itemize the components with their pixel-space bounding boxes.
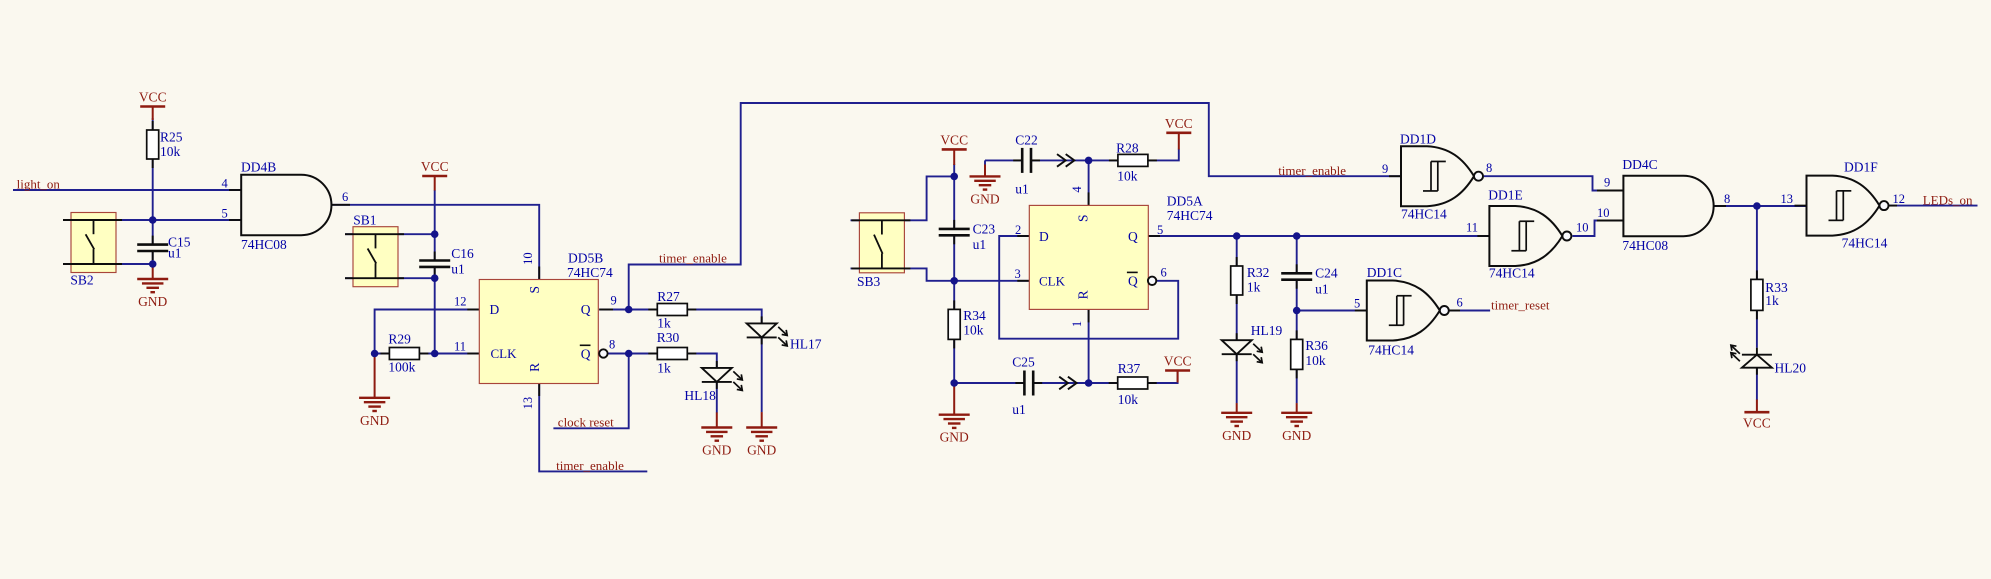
svg-text:C25: C25 xyxy=(1012,355,1035,370)
svg-text:1k: 1k xyxy=(1247,280,1261,295)
svg-text:timer_enable: timer_enable xyxy=(556,458,624,473)
svg-text:SB2: SB2 xyxy=(70,273,93,288)
svg-text:GND: GND xyxy=(940,430,969,445)
svg-text:74HC14: 74HC14 xyxy=(1842,236,1888,251)
svg-text:VCC: VCC xyxy=(940,132,968,147)
svg-text:D: D xyxy=(1039,229,1049,244)
svg-text:9: 9 xyxy=(1382,162,1388,176)
svg-text:DD4B: DD4B xyxy=(241,160,276,175)
svg-text:HL19: HL19 xyxy=(1251,323,1283,338)
svg-text:DD5B: DD5B xyxy=(568,251,603,266)
svg-text:DD4C: DD4C xyxy=(1622,157,1657,172)
svg-text:D: D xyxy=(490,302,500,317)
svg-text:Q: Q xyxy=(1128,274,1138,289)
svg-text:12: 12 xyxy=(454,295,467,309)
svg-text:S: S xyxy=(1076,214,1091,222)
svg-text:u1: u1 xyxy=(168,246,182,261)
svg-text:R37: R37 xyxy=(1118,361,1141,376)
svg-text:timer_enable: timer_enable xyxy=(1278,163,1346,178)
svg-text:DD1D: DD1D xyxy=(1400,132,1436,147)
svg-text:10k: 10k xyxy=(1305,353,1326,368)
svg-text:R: R xyxy=(1076,290,1091,299)
svg-text:GND: GND xyxy=(1282,428,1311,443)
svg-text:GND: GND xyxy=(970,191,999,206)
svg-text:Q: Q xyxy=(581,302,591,317)
svg-text:R30: R30 xyxy=(657,330,680,345)
svg-text:5: 5 xyxy=(222,207,228,221)
svg-text:u1: u1 xyxy=(973,237,987,252)
svg-text:HL20: HL20 xyxy=(1775,361,1807,376)
svg-text:4: 4 xyxy=(222,177,229,191)
svg-text:9: 9 xyxy=(611,294,617,308)
svg-text:1k: 1k xyxy=(1765,293,1779,308)
svg-text:9: 9 xyxy=(1604,176,1610,190)
svg-text:VCC: VCC xyxy=(139,90,167,105)
svg-text:HL17: HL17 xyxy=(790,337,822,352)
svg-text:100k: 100k xyxy=(388,360,415,375)
svg-text:SB1: SB1 xyxy=(353,213,376,228)
svg-text:10k: 10k xyxy=(160,144,181,159)
svg-text:clock reset: clock reset xyxy=(558,415,614,430)
svg-text:74HC08: 74HC08 xyxy=(1622,238,1668,253)
svg-text:R36: R36 xyxy=(1305,338,1328,353)
svg-text:C24: C24 xyxy=(1315,266,1338,281)
svg-text:10k: 10k xyxy=(1118,392,1139,407)
svg-text:u1: u1 xyxy=(451,262,465,277)
svg-text:GND: GND xyxy=(702,443,731,458)
svg-text:R27: R27 xyxy=(657,289,680,304)
svg-text:6: 6 xyxy=(1457,296,1463,310)
svg-text:DD1C: DD1C xyxy=(1367,265,1402,280)
svg-text:74HC74: 74HC74 xyxy=(567,265,613,280)
svg-text:10: 10 xyxy=(1576,221,1589,235)
svg-text:Q: Q xyxy=(1128,229,1138,244)
svg-text:10k: 10k xyxy=(1117,169,1138,184)
svg-text:8: 8 xyxy=(1724,192,1730,206)
svg-text:74HC08: 74HC08 xyxy=(241,237,287,252)
svg-text:Q: Q xyxy=(581,347,591,362)
svg-text:1k: 1k xyxy=(657,316,671,331)
svg-text:6: 6 xyxy=(1161,265,1167,279)
svg-text:GND: GND xyxy=(360,413,389,428)
svg-text:timer_reset: timer_reset xyxy=(1491,298,1550,313)
svg-text:R29: R29 xyxy=(388,332,411,347)
svg-text:5: 5 xyxy=(1157,223,1163,237)
svg-text:11: 11 xyxy=(454,340,466,354)
svg-text:R25: R25 xyxy=(160,130,183,145)
svg-text:S: S xyxy=(527,286,542,294)
svg-text:5: 5 xyxy=(1354,297,1360,311)
svg-text:R32: R32 xyxy=(1247,265,1270,280)
svg-text:10: 10 xyxy=(1597,206,1610,220)
svg-text:1k: 1k xyxy=(657,361,671,376)
svg-text:C16: C16 xyxy=(451,246,474,261)
svg-text:C23: C23 xyxy=(973,222,996,237)
svg-text:11: 11 xyxy=(1466,221,1478,235)
svg-text:CLK: CLK xyxy=(491,346,518,361)
svg-text:SB3: SB3 xyxy=(857,274,881,289)
svg-text:R28: R28 xyxy=(1116,141,1139,156)
svg-text:DD1E: DD1E xyxy=(1488,188,1523,203)
svg-text:VCC: VCC xyxy=(1164,354,1192,369)
svg-text:VCC: VCC xyxy=(1165,116,1193,131)
svg-text:74HC14: 74HC14 xyxy=(1401,207,1447,222)
svg-text:CLK: CLK xyxy=(1039,274,1066,289)
svg-text:10: 10 xyxy=(521,252,535,265)
svg-text:DD5A: DD5A xyxy=(1167,194,1203,209)
svg-text:4: 4 xyxy=(1070,186,1084,193)
svg-text:R: R xyxy=(527,363,542,372)
svg-text:u1: u1 xyxy=(1012,402,1026,417)
svg-text:VCC: VCC xyxy=(421,159,449,174)
svg-text:LEDs_on: LEDs_on xyxy=(1923,193,1973,208)
svg-text:3: 3 xyxy=(1015,267,1021,281)
svg-text:R34: R34 xyxy=(963,308,986,323)
svg-text:74HC14: 74HC14 xyxy=(1368,343,1414,358)
svg-text:10k: 10k xyxy=(963,323,984,338)
svg-text:6: 6 xyxy=(342,190,348,204)
svg-text:DD1F: DD1F xyxy=(1844,160,1878,175)
svg-text:8: 8 xyxy=(1486,161,1492,175)
svg-text:u1: u1 xyxy=(1315,282,1329,297)
svg-text:13: 13 xyxy=(521,397,535,410)
svg-text:GND: GND xyxy=(138,294,167,309)
svg-text:VCC: VCC xyxy=(1743,416,1771,431)
svg-text:C22: C22 xyxy=(1015,133,1038,148)
svg-text:8: 8 xyxy=(609,338,615,352)
svg-text:GND: GND xyxy=(1222,428,1251,443)
svg-text:GND: GND xyxy=(747,443,776,458)
svg-text:12: 12 xyxy=(1893,192,1906,206)
svg-text:2: 2 xyxy=(1015,223,1021,237)
svg-text:74HC14: 74HC14 xyxy=(1489,266,1535,281)
svg-text:1: 1 xyxy=(1070,321,1084,327)
svg-text:HL18: HL18 xyxy=(684,388,716,403)
svg-text:74HC74: 74HC74 xyxy=(1167,208,1213,223)
svg-text:timer_enable: timer_enable xyxy=(659,251,727,266)
svg-text:light_on: light_on xyxy=(17,177,61,192)
svg-text:u1: u1 xyxy=(1015,182,1028,197)
svg-text:13: 13 xyxy=(1781,192,1794,206)
